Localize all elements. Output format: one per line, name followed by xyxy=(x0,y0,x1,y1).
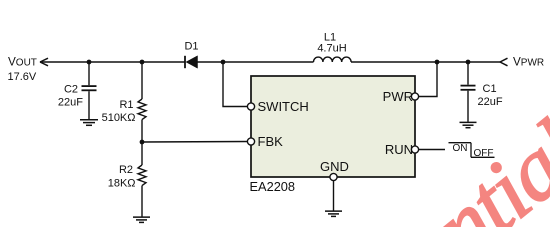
svg-text:ON: ON xyxy=(453,143,468,154)
wire FBK xyxy=(142,141,248,144)
svg-text:22uF: 22uF xyxy=(58,97,83,109)
wire D1 to L1 xyxy=(198,61,314,63)
pin GND circle xyxy=(330,173,337,180)
node VPWR arrowhead xyxy=(500,58,508,66)
svg-text:C2: C2 xyxy=(64,84,78,96)
wire VOUT to D1 xyxy=(40,61,185,63)
node junction SWITCH xyxy=(221,60,226,65)
svg-text:SWITCH: SWITCH xyxy=(258,99,309,114)
wire L1 to VPWR arrow xyxy=(351,61,500,63)
wire top to SWITCH xyxy=(223,62,248,107)
resistor R2 xyxy=(138,142,146,217)
svg-text:4.7uH: 4.7uH xyxy=(317,43,346,55)
IC U1 EA2208 body xyxy=(251,76,415,177)
ground (C2) xyxy=(80,120,98,126)
svg-text:EA2208: EA2208 xyxy=(250,179,296,194)
ground (IC GND) xyxy=(325,211,342,216)
svg-text:L1: L1 xyxy=(324,32,336,44)
svg-text:D1: D1 xyxy=(184,41,198,53)
wire RUN stub xyxy=(419,149,446,151)
svg-text:18KΩ: 18KΩ xyxy=(108,177,136,189)
svg-text:GND: GND xyxy=(320,159,349,174)
node junction FBK xyxy=(140,140,145,145)
ground (R2) xyxy=(133,217,150,222)
svg-text:22uF: 22uF xyxy=(478,96,503,108)
svg-text:510KΩ: 510KΩ xyxy=(102,112,136,124)
svg-text:C1: C1 xyxy=(483,83,497,95)
node ON/OFF annotation xyxy=(449,143,495,160)
svg-text:VOUT: VOUT xyxy=(8,56,37,69)
node junction PWR xyxy=(435,60,440,65)
diode D1 xyxy=(185,56,198,68)
resistor R1 xyxy=(138,62,146,142)
inductor L1 xyxy=(314,57,352,62)
svg-text:R1: R1 xyxy=(119,99,133,111)
pin SWITCH circle xyxy=(247,103,254,110)
svg-text:FBK: FBK xyxy=(258,134,284,149)
svg-text:17.6V: 17.6V xyxy=(8,71,37,83)
capacitor C1 xyxy=(461,62,476,122)
capacitor C2 xyxy=(82,62,97,119)
pin RUN circle xyxy=(411,146,418,153)
ground (C1) xyxy=(460,122,477,127)
node VOUT arrowhead xyxy=(40,58,48,66)
svg-text:RUN: RUN xyxy=(385,142,413,157)
pin FBK circle xyxy=(247,138,254,145)
pin PWR circle xyxy=(411,93,418,100)
svg-text:OFF: OFF xyxy=(474,148,494,159)
node junction R1 xyxy=(140,60,145,65)
svg-text:R2: R2 xyxy=(119,164,133,176)
svg-text:PWR: PWR xyxy=(383,89,413,104)
node junction C2 xyxy=(87,60,92,65)
wire GND to ground xyxy=(333,181,335,211)
node junction C1 xyxy=(466,60,471,65)
svg-text:VPWR: VPWR xyxy=(513,55,544,68)
wire PWR to top xyxy=(419,62,438,97)
